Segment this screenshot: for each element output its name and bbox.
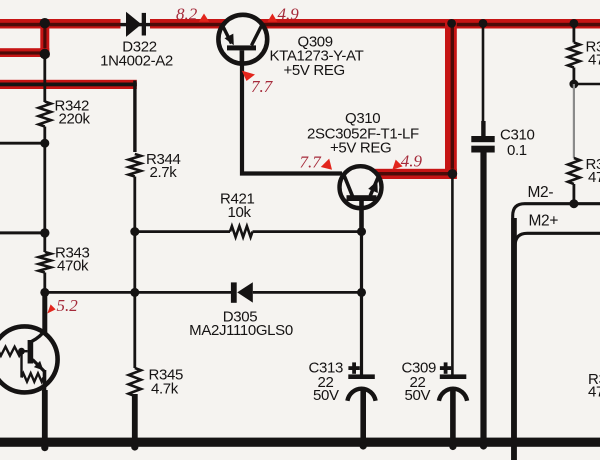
transistor Q309 collector slant (252, 25, 262, 45)
wire R343 to node 5.2 (43, 273, 46, 293)
annotation 8.2 with probe triangle (176, 5, 209, 24)
wire R342/R343 column segment (43, 143, 46, 252)
node junction dot M2- line (569, 199, 578, 208)
resistor R3xx top right (568, 43, 580, 68)
wire lead bumps at ground bus (41, 442, 487, 451)
label M2- (528, 184, 554, 201)
svg-text:50V: 50V (405, 387, 431, 404)
transistor Q309 base bar (227, 45, 256, 50)
wire R3xx to node y84 (573, 68, 576, 85)
wire red horizontal stub left edge y54 (0, 48, 49, 57)
label R3xx top right (586, 39, 600, 69)
wire D305 line right segment (253, 291, 362, 294)
label Q310 (307, 110, 419, 157)
wire +B rail (red highlighted) top horizontal (0, 19, 600, 29)
label R3xx lower right (586, 156, 600, 186)
wire C309 to ground bus (thick) (450, 389, 456, 444)
wire ground bus bottom (0, 438, 600, 447)
wire D305 line left segment (45, 291, 231, 294)
wire +B to C310 (thin) (482, 27, 485, 122)
wire base lead into Q3 digital transistor (42, 292, 47, 333)
transistor Q310 body (340, 166, 382, 208)
transistor Q310 base bar (347, 195, 377, 201)
transistor Q3xx collector curve (32, 330, 45, 342)
node dot inside Q3xx (18, 348, 25, 355)
wire dot to base bar (22, 350, 28, 352)
transistor Q3xx base bar (28, 340, 34, 364)
wire Q3xx emitter to ground bus (42, 370, 48, 440)
wire R421 line left segment (135, 230, 230, 233)
wire down from dot inside Q3xx (20, 351, 22, 377)
capacitor C309 plus sign (440, 362, 451, 373)
wire M2 merged vertical bar (511, 218, 517, 460)
capacitor C309 plates (439, 374, 467, 400)
resistor base zigzag inside Q3xx (0, 347, 22, 356)
node junction dot stub y54 (40, 49, 50, 59)
svg-text:4.7k: 4.7k (151, 381, 179, 398)
wire stub left edge y143 (0, 142, 45, 145)
label C310 value (500, 127, 534, 160)
transistor Q310 left slant (344, 174, 353, 196)
wire stub right edge y84 (574, 83, 600, 86)
transistor Q3xx digital body (0, 326, 58, 392)
svg-text:47k: 47k (588, 52, 600, 69)
wire +B down to R3xx top (573, 23, 576, 42)
annotation 4.9 Q310 with probe triangle (392, 152, 422, 171)
wire corner down from y82 wire to R344 (133, 81, 136, 153)
label R3xx bottom right edge (588, 371, 600, 401)
node junction dot +B C310 tap (479, 19, 488, 28)
resistor R345 (129, 368, 141, 396)
svg-text:4.9: 4.9 (401, 152, 423, 171)
label Q309 (270, 34, 364, 80)
svg-text:470k: 470k (57, 258, 89, 275)
capacitor C313 plus sign (348, 362, 359, 373)
wire column x135 down to R345 (133, 292, 136, 368)
svg-text:4.9: 4.9 (278, 5, 300, 24)
node junction dot 4.9V corner (448, 169, 458, 179)
transistor Q309 emitter slant with arrow (223, 26, 234, 46)
wire 4.9V node down to C309 (451, 178, 454, 375)
diode D322 (white gap in highlight, black wire through) (121, 12, 151, 37)
wire M2- with rounded corner (513, 204, 600, 460)
resistor R421 (230, 226, 253, 237)
wire R3xx to M2- node (573, 184, 576, 204)
resistor emitter zigzag inside Q3xx (22, 373, 44, 381)
label D305 value (189, 309, 293, 340)
annotation 7.7 Q309 base with probe triangle (242, 71, 274, 96)
svg-text:50V: 50V (313, 387, 339, 404)
svg-text:M2-: M2- (528, 184, 554, 201)
transistor Q309 body (218, 15, 267, 64)
svg-text:5.2: 5.2 (57, 296, 79, 315)
label R345 value (149, 367, 183, 398)
annotation 7.7 Q310 with probe triangle (300, 153, 333, 172)
capacitor C313 plates (347, 374, 375, 400)
transistor Q310 emitter slant with arrow (368, 177, 378, 196)
svg-text:7.7: 7.7 (300, 153, 323, 172)
svg-text:0.1: 0.1 (507, 142, 527, 159)
svg-text:47: 47 (588, 384, 600, 401)
label R343 value (55, 245, 89, 275)
node junction dot y233 (40, 228, 49, 237)
svg-text:MA2J1110GLS0: MA2J1110GLS0 (189, 322, 293, 339)
svg-text:Q310: Q310 (345, 110, 380, 127)
node junction dot y84 right (569, 80, 578, 89)
annotation 4.9 top with probe triangle (268, 5, 300, 24)
label D322 value (100, 39, 173, 70)
wire R421 line right segment (253, 230, 362, 233)
svg-text:C310: C310 (500, 127, 534, 144)
svg-text:47k: 47k (588, 169, 600, 186)
svg-text:7.7: 7.7 (251, 77, 274, 96)
wire C310 to ground bus (thick vertical rail) (480, 153, 486, 440)
wire R344 to R421 node (133, 177, 136, 232)
wire red vertical x450 from +B rail down to Q310 output (445, 19, 457, 179)
node junction dot R421 left (130, 227, 139, 236)
label M2+ (529, 213, 559, 230)
wire column x135 between R421 and D305 lines (133, 232, 136, 293)
wire gray segment right column (573, 84, 575, 158)
wire M2+ with rounded corner (515, 233, 600, 460)
svg-text:M2+: M2+ (529, 213, 559, 230)
capacitor C310 plates (471, 136, 494, 153)
wire red horizontal Q310 emitter output 4.9V (372, 169, 457, 179)
wire horizontal left y82 (black with red highlight below) (0, 80, 137, 89)
node junction dot 5.2 (40, 288, 49, 297)
node junction dot +B/top-left (40, 18, 50, 28)
svg-text:+5V REG: +5V REG (284, 62, 345, 79)
svg-text:1N4002-A2: 1N4002-A2 (100, 53, 173, 70)
label R421 value (220, 191, 254, 222)
diode D305 (231, 282, 253, 303)
label R344 value (146, 151, 180, 181)
label R342 value (55, 98, 91, 128)
resistor R344 (129, 154, 141, 177)
label C309 value (402, 360, 436, 405)
svg-text:220k: 220k (59, 111, 91, 128)
svg-text:8.2: 8.2 (176, 5, 198, 24)
wire C313 to ground bus (thick) (360, 389, 366, 441)
wire C310 top stub (thick) (481, 121, 485, 137)
wire stub left edge y233 (0, 231, 45, 234)
transistor Q309 base stem (240, 50, 245, 64)
transistor Q3xx emitter slant with arrow (33, 360, 45, 372)
wire Q310 collector down to C313 (360, 232, 363, 375)
svg-text:+5V REG: +5V REG (330, 140, 391, 157)
annotation 5.2 with probe triangle (47, 296, 78, 315)
resistor R342 (39, 102, 51, 127)
transistor Q310 stem down (359, 201, 364, 232)
node junction dot +B red vertical (447, 19, 456, 28)
node junction dot y143 (40, 139, 49, 148)
label C313 value (309, 360, 343, 405)
node junction dot D305 line x135 (130, 288, 139, 297)
resistor R3xx lower right (568, 158, 580, 184)
resistor R343 (39, 252, 51, 273)
node junction dot D305 right (357, 288, 366, 297)
wire R342 to node dot (43, 127, 46, 144)
wire R342 column upper segment (43, 54, 46, 102)
node junction dot R421 right (357, 227, 366, 236)
wire red vertical stub top-left (40, 19, 49, 57)
svg-text:2.7k: 2.7k (150, 164, 178, 181)
wire Q309 base elbow down-right to Q310 (242, 50, 342, 174)
svg-text:10k: 10k (228, 204, 252, 221)
node junction dot +B right column (570, 19, 579, 28)
wire R345 to ground bus (thick) (132, 394, 138, 440)
